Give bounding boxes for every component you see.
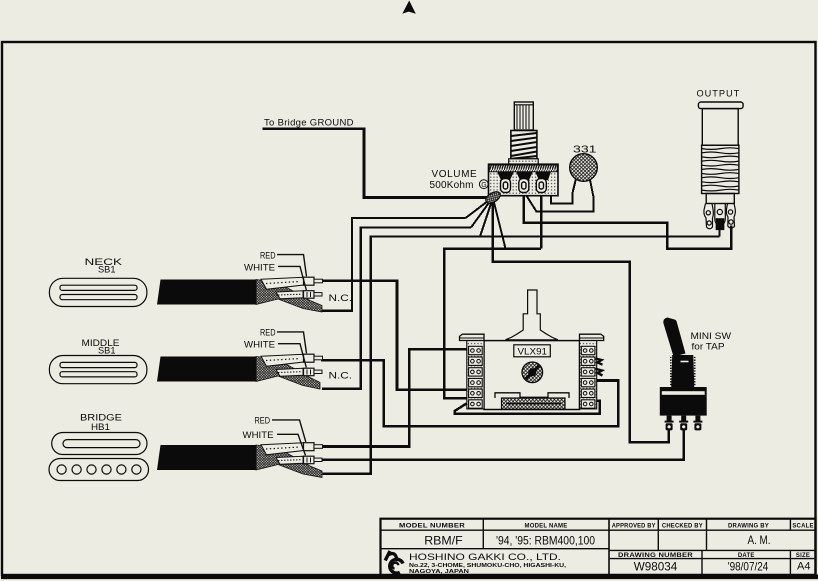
wire: ground joint fan diagonals (466, 191, 506, 249)
mini switch body (660, 387, 707, 416)
wire hook on switch right lug2 (596, 359, 603, 365)
title block headers (399, 523, 814, 559)
pot threaded bushing (511, 131, 537, 160)
svg-text:RBM/F: RBM/F (424, 534, 463, 548)
wire: pot lug2 to capacitor right leg (524, 191, 594, 212)
svg-text:SIZE: SIZE (796, 553, 810, 559)
svg-text:RED: RED (260, 250, 276, 260)
jack flange (698, 102, 743, 109)
wire: bridge red lead to switch left lug1 (321, 349, 467, 446)
svg-text:'98/07/24: '98/07/24 (728, 560, 769, 574)
jack tip pin center (715, 204, 726, 230)
wire: bridge red wire and crimp connector (261, 443, 304, 455)
mini toggle switch SW2 for TAP (660, 318, 732, 431)
svg-text:G: G (481, 182, 486, 189)
svg-text:WHITE: WHITE (244, 340, 275, 350)
switch lever (506, 290, 559, 340)
svg-text:VLX91: VLX91 (518, 346, 548, 356)
wire: ground to middle shield (322, 228, 471, 389)
mini switch bushing (671, 355, 694, 387)
capacitor C1 331 (570, 145, 598, 182)
svg-text:MODEL NUMBER: MODEL NUMBER (399, 523, 466, 529)
svg-text:MODEL NAME: MODEL NAME (525, 523, 568, 529)
svg-text:A4: A4 (797, 560, 811, 572)
wire: capacitor left leg to pot casing (551, 179, 576, 204)
jack threaded section (702, 145, 739, 193)
wire: To Bridge GROUND underline and run to pot casing ground joint (263, 129, 489, 198)
wire hook on switch right lug3 (596, 369, 603, 376)
wire: middle red lead to switch right lug4 (321, 360, 618, 426)
wire: loop below switch joining left lug6 and right lug6 (455, 401, 600, 414)
switch bottom bracket (495, 393, 569, 398)
pot knurled shaft (514, 102, 533, 130)
svg-text:RED: RED (255, 416, 271, 426)
wire: neck red lead to switch left lug5 (321, 281, 467, 390)
mini switch terminal 1 (665, 416, 674, 431)
pot shaft collar (509, 159, 539, 165)
jack sleeve lug right (726, 204, 735, 229)
svg-text:DRAWING NUMBER: DRAWING NUMBER (618, 553, 694, 559)
selector switch SW1 VLX91 (460, 290, 604, 410)
wire: ground to neck shield (322, 218, 466, 311)
mini switch terminal 2 (679, 416, 688, 431)
svg-text:To Bridge GROUND: To Bridge GROUND (264, 117, 354, 128)
wire: bridge white wire and crimp connector (276, 456, 303, 464)
pickup P2 MIDDLE SB1 (49, 338, 146, 384)
svg-text:SCALE: SCALE (792, 523, 813, 529)
wire: middle red wire and crimp connector (261, 354, 304, 366)
cable W1 neck shielded cable (157, 250, 352, 312)
pot lug 3 (536, 179, 546, 193)
jack lug left (704, 204, 713, 229)
svg-text:SB1: SB1 (98, 345, 116, 355)
svg-text:DATE: DATE (738, 553, 755, 559)
svg-text:HB1: HB1 (91, 422, 110, 432)
wire: ground bus to jack pin and bridge shield (323, 228, 720, 474)
pickup P3 BRIDGE HB1 humbucker (49, 413, 149, 481)
svg-text:SB1: SB1 (98, 265, 116, 275)
switch top flange left (460, 334, 485, 340)
svg-text:NAGOYA, JAPAN: NAGOYA, JAPAN (409, 569, 469, 575)
svg-text:HOSHINO GAKKI CO., LTD.: HOSHINO GAKKI CO., LTD. (409, 552, 561, 563)
svg-text:N.C.: N.C. (329, 370, 353, 380)
title block values (424, 533, 810, 574)
switch label box VLX91 (514, 345, 551, 357)
wire: pot lug2 to output jack tip lug (524, 191, 732, 249)
svg-text:N.C.: N.C. (329, 293, 353, 303)
svg-text:W98034: W98034 (634, 560, 678, 574)
wire: middle white wire and crimp connector (N.C.) (276, 368, 303, 376)
svg-text:RED: RED (260, 328, 276, 338)
svg-text:WHITE: WHITE (243, 430, 274, 440)
switch screw (522, 362, 543, 383)
mini switch bat lever (663, 318, 685, 357)
cable W2 middle shielded cable (157, 328, 352, 389)
pot lug 2 (519, 179, 529, 193)
wire: neck red wire and crimp connector (261, 277, 304, 289)
svg-text:A. M.: A. M. (748, 533, 771, 547)
pot lug 1 (501, 179, 511, 193)
mini switch terminal 3 (693, 416, 702, 431)
wire: capacitor right leg (590, 178, 594, 197)
potentiometer VR1 VOLUME 500Kohm (430, 102, 559, 206)
svg-text:DRAWING BY: DRAWING BY (728, 523, 769, 529)
top marker triangle (402, 1, 416, 14)
wire: neck white wire and crimp connector (N.C.) (276, 291, 303, 299)
title block (381, 519, 816, 575)
wire: bridge white lead to mini switch middle terminal (321, 428, 684, 460)
svg-text:VOLUME: VOLUME (432, 169, 478, 180)
svg-text:CHECKED BY: CHECKED BY (662, 523, 703, 529)
svg-text:WHITE: WHITE (244, 262, 275, 272)
jack barrel (702, 109, 738, 146)
switch body (484, 341, 580, 410)
switch top flange right (580, 334, 604, 340)
Hoshino Gakki logo (385, 551, 403, 573)
output jack J1 (697, 89, 744, 230)
switch left lug column (467, 341, 484, 409)
wire: ground joint down to mini switch left terminal (493, 200, 669, 442)
switch right lug column (580, 341, 597, 409)
pot wiper contacts (497, 172, 514, 181)
svg-text:'94, '95: RBM400,100: '94, '95: RBM400,100 (496, 534, 595, 548)
svg-text:BRIDGE: BRIDGE (80, 413, 122, 423)
svg-text:500Kohm: 500Kohm (430, 180, 474, 191)
svg-text:OUTPUT: OUTPUT (697, 89, 741, 99)
jack collar (706, 194, 734, 204)
svg-text:MINI SW: MINI SW (691, 331, 732, 341)
pickup P1 NECK SB1 (49, 257, 146, 307)
pot body (489, 164, 559, 196)
svg-text:for TAP: for TAP (692, 342, 725, 352)
cable W3 bridge shielded cable (157, 416, 323, 478)
svg-text:APPROVED BY: APPROVED BY (612, 523, 656, 529)
ground solder joint on pot casing (484, 189, 502, 205)
wire: pot lug3 to switch left lug6 (444, 191, 541, 398)
